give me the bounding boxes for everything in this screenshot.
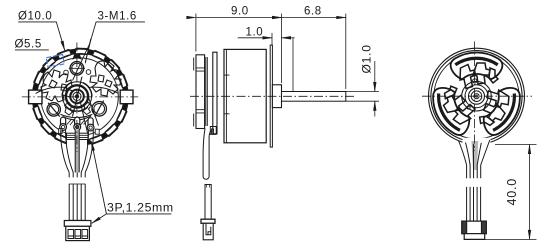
dim dia 1.0 extension lines xyxy=(346,92,379,102)
middle wire gray core xyxy=(75,130,79,173)
hub detail circles xyxy=(473,79,477,83)
back wire bundle lower xyxy=(467,187,481,221)
back connector xyxy=(462,221,487,239)
mounting plate xyxy=(194,55,205,129)
side view connector xyxy=(201,219,215,240)
side view wire lower segment xyxy=(205,185,211,220)
winding tuft lower-left xyxy=(65,103,73,116)
wire terminal middle xyxy=(74,117,81,130)
side view centerline xyxy=(190,95,354,97)
stator lamination circle xyxy=(41,58,119,136)
side view wire xyxy=(203,127,216,180)
back can outer circle xyxy=(429,48,525,144)
wire exit bracket xyxy=(59,129,99,140)
back windows (3x) xyxy=(426,52,528,140)
rim tab 3:00 xyxy=(120,90,133,104)
dim dia 1.0 xyxy=(374,61,376,117)
top hole xyxy=(64,59,91,79)
dim 1.0 xyxy=(238,37,295,39)
shaft hub bullseye xyxy=(62,82,91,111)
svg-text:3-M1.6: 3-M1.6 xyxy=(98,11,137,23)
motor can outer circle xyxy=(32,48,128,145)
svg-text:3P,1.25mm: 3P,1.25mm xyxy=(107,201,174,215)
svg-text:40.0: 40.0 xyxy=(505,178,519,206)
wire bundle upper segment xyxy=(69,172,85,177)
coil diagonal lower-right xyxy=(80,101,88,136)
winding mass upper-right xyxy=(90,61,121,96)
wire left xyxy=(61,129,74,172)
svg-text:6.8: 6.8 xyxy=(304,6,322,18)
svg-text:Ø1.0: Ø1.0 xyxy=(360,44,374,73)
bearing boss xyxy=(272,85,281,108)
terminal straps xyxy=(67,120,88,126)
dim 6.8 extension line xyxy=(345,14,347,90)
label dia 10.0 xyxy=(18,22,64,50)
threaded hole M1.6 lower-right xyxy=(90,100,108,118)
wire middle xyxy=(75,130,79,173)
wire exit gap in rim xyxy=(67,139,87,148)
wire terminal right xyxy=(87,118,94,131)
wire bundle lower segment xyxy=(69,184,85,221)
motor body xyxy=(224,49,266,142)
inner arc ring xyxy=(62,83,92,112)
svg-text:1.0: 1.0 xyxy=(246,26,264,38)
back stator circle xyxy=(434,54,519,139)
spacer washer xyxy=(213,52,217,134)
svg-text:9.0: 9.0 xyxy=(231,6,249,18)
back wire gray core xyxy=(472,141,479,170)
wire right xyxy=(81,129,93,172)
front view vertical centerline xyxy=(76,43,78,153)
hub-to-ring curves xyxy=(36,87,119,93)
wire terminal left xyxy=(60,117,67,130)
blue highlight box xyxy=(46,55,64,68)
dim 9.0 xyxy=(196,17,282,19)
dim 1.0 extension line xyxy=(271,33,273,45)
threaded hole M1.6 lower-left xyxy=(45,101,62,118)
dim 6.8 xyxy=(282,17,346,19)
dim 9.0 extension lines xyxy=(196,14,282,84)
back can rim circle xyxy=(431,51,522,142)
label 3P leader to wires xyxy=(91,141,106,214)
connector front view xyxy=(64,221,91,241)
svg-text:Ø5.5: Ø5.5 xyxy=(15,39,42,51)
under-hub arcs xyxy=(59,113,96,120)
dim 40.0 extension lines xyxy=(485,145,537,240)
label dia 5.5 xyxy=(15,49,49,51)
rim tab 9:00 xyxy=(29,90,42,104)
stator bridge above top hole xyxy=(73,55,82,61)
winding tuft lower-right xyxy=(83,103,91,115)
coil diagonal right xyxy=(89,98,99,126)
rotor blade texture xyxy=(41,39,121,126)
back hub bullseye xyxy=(462,81,492,111)
rim vent slots xyxy=(75,48,88,54)
back view horizontal centerline xyxy=(422,95,532,97)
back wires xyxy=(459,140,490,178)
label 3-M1.6 leader xyxy=(73,22,145,81)
svg-text:Ø10.0: Ø10.0 xyxy=(18,11,52,23)
label 3P leader to connector xyxy=(92,214,172,223)
body end cap plate xyxy=(270,45,272,147)
shaft xyxy=(282,38,346,101)
winding mass upper-left xyxy=(41,70,73,102)
back view vertical centerline xyxy=(474,42,476,151)
front view horizontal centerline xyxy=(22,96,138,98)
bracket plate second layer xyxy=(206,57,208,126)
back wire exit gap in rim xyxy=(463,138,491,147)
dim 40.0 xyxy=(529,145,531,240)
